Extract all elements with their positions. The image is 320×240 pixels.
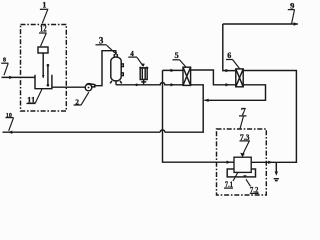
- svg-text:6: 6: [227, 51, 231, 60]
- svg-text:11: 11: [27, 96, 35, 105]
- svg-text:7.2: 7.2: [250, 185, 259, 195]
- svg-text:7.3: 7.3: [240, 133, 250, 142]
- svg-text:10: 10: [6, 112, 12, 119]
- svg-text:4: 4: [130, 50, 134, 58]
- svg-text:7: 7: [241, 107, 246, 118]
- svg-text:9: 9: [290, 0, 294, 10]
- svg-text:3: 3: [99, 36, 104, 46]
- svg-text:1: 1: [42, 1, 46, 10]
- svg-text:2: 2: [75, 98, 79, 107]
- svg-text:5: 5: [175, 50, 179, 60]
- svg-text:7.1: 7.1: [225, 180, 233, 189]
- svg-text:12: 12: [40, 24, 47, 34]
- svg-text:8: 8: [3, 58, 6, 64]
